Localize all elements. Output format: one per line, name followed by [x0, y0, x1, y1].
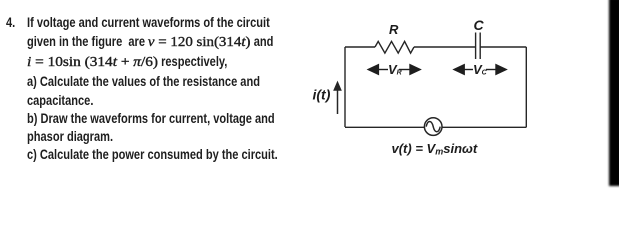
- wire: top-middle segment: [414, 46, 476, 48]
- wire: right side: [525, 47, 527, 127]
- resistor R: [375, 41, 414, 53]
- wire: top-left segment: [345, 46, 375, 48]
- svg-text:R: R: [389, 22, 399, 37]
- voltage arrow VC: [454, 65, 506, 75]
- problem number: [6, 13, 15, 31]
- current arrow i(t): [334, 83, 340, 115]
- svg-text:C: C: [474, 17, 485, 33]
- svg-text:v(t) = Vmsinωt: v(t) = Vmsinωt: [392, 141, 478, 157]
- problem text: [27, 13, 278, 163]
- wire: bottom-left segment: [345, 126, 424, 128]
- capacitor C: [476, 33, 481, 60]
- wire: top-right segment: [480, 46, 526, 48]
- svg-text:VR: VR: [388, 62, 402, 77]
- wire: left side: [344, 47, 346, 127]
- wire: bottom-right segment: [442, 126, 526, 128]
- svg-text:VC: VC: [473, 62, 488, 77]
- voltage arrow VR: [368, 65, 420, 75]
- svg-text:i(t): i(t): [313, 87, 331, 103]
- AC voltage source v(t): [424, 118, 442, 136]
- black scan band at right edge: [609, 0, 619, 186]
